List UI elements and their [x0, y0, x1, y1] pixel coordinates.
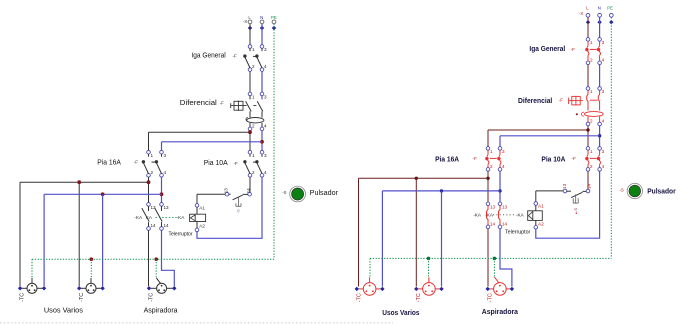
RCD blade pole 2	[257, 96, 263, 112]
RCD terminal 2 (sim)	[586, 119, 593, 127]
junction L socket 2 (sim)	[415, 177, 418, 180]
pushbutton -S terminal 14 (sim)	[586, 183, 592, 193]
svg-text:PE: PE	[607, 6, 613, 11]
indicator pushbutton Pulsador (sim)	[627, 183, 642, 198]
wire L drop socket 2	[78, 182, 80, 286]
indicator -S label (sim)	[620, 188, 624, 193]
svg-text:4: 4	[264, 124, 267, 129]
wire PE horizontal to sockets	[32, 258, 274, 260]
node N supply terminal (sim)	[597, 6, 601, 25]
svg-text:KA: KA	[146, 215, 153, 220]
svg-text:13: 13	[502, 204, 508, 209]
wire L KA to Aspiradora socket (sim)	[487, 229, 489, 287]
circuit breaker Pia 16A pole 2 (3-4)	[155, 150, 167, 178]
svg-text:1: 1	[590, 149, 593, 154]
junction L split to Pia 16A (sim)	[586, 128, 589, 131]
svg-text:-S: -S	[573, 208, 578, 212]
relay contact -KA pole 2 terminal 13	[159, 202, 169, 210]
pushbutton -S blade	[229, 194, 248, 200]
svg-text:-KA: -KA	[516, 213, 525, 218]
svg-text:3: 3	[502, 149, 505, 154]
label -F (Diferencial)	[220, 100, 224, 105]
wire N Iga to Diferencial (sim)	[599, 65, 601, 87]
label Telerruptor	[169, 231, 193, 237]
svg-text:Pia 10A: Pia 10A	[541, 155, 566, 164]
node L supply terminal -X	[243, 15, 252, 30]
wire N supply to Iga (sim)	[599, 17, 601, 37]
svg-text:-S: -S	[620, 188, 624, 193]
svg-text:-X: -X	[243, 19, 247, 24]
svg-text:3: 3	[264, 95, 267, 100]
relay contact -KA pole 2 terminal 14 (sim)	[498, 222, 508, 230]
socket -TC 2 (Usos Varios)	[77, 278, 105, 302]
svg-text:3: 3	[602, 40, 605, 45]
wire L drop socket 2 (sim)	[415, 178, 417, 286]
junction L to sockets (sim)	[486, 177, 489, 180]
RCD toroid	[246, 111, 264, 127]
mechanical link Pia 10A	[253, 161, 258, 163]
svg-text:3: 3	[602, 149, 605, 154]
RCD test box (sim)	[569, 96, 583, 106]
label -F (Iga General)	[232, 54, 236, 59]
relay contact -KA pole 1 terminal 14 (sim)	[486, 222, 496, 230]
relay contact -KA pole 2	[155, 206, 162, 226]
svg-text:1: 1	[252, 47, 255, 52]
svg-text:-KA: -KA	[134, 215, 143, 220]
svg-text:-F: -F	[559, 98, 563, 103]
svg-text:14: 14	[246, 188, 251, 194]
svg-text:4: 4	[602, 57, 605, 62]
wire L horizontal to Usos Varios (sim)	[359, 178, 489, 286]
RCD terminal 3 (sim)	[597, 86, 604, 94]
svg-text:3: 3	[264, 47, 267, 52]
RCD blade pole 1	[246, 96, 252, 112]
wire PE horizontal to sockets (sim)	[370, 257, 611, 259]
junction N to sockets (sim)	[498, 189, 501, 192]
breaker Pia 16A pole 2 closed (sim)	[497, 146, 505, 171]
svg-text:1: 1	[252, 153, 255, 158]
svg-text:1: 1	[151, 153, 154, 158]
svg-text:13: 13	[490, 204, 496, 209]
svg-text:14: 14	[164, 223, 170, 228]
wire N Diferencial to Pia 10A (sim)	[599, 126, 601, 147]
wire PE drop socket 2 (sim)	[428, 258, 430, 277]
mechanical link Pia16A (sim)	[490, 157, 497, 159]
page border dashed	[0, 322, 393, 324]
svg-text:1: 1	[590, 40, 593, 45]
node PE supply terminal	[271, 15, 277, 30]
label -F Iga (sim)	[571, 47, 575, 52]
RCD Diferencial terminal 1	[248, 92, 255, 100]
socket -TC 3 Aspiradora (sim)	[486, 277, 515, 302]
wire pushbutton 13 to coil A1 (sim)	[536, 191, 563, 202]
wire N drop socket 2	[102, 194, 104, 286]
svg-text:2: 2	[252, 64, 255, 69]
junction PE Aspiradora (sim)	[493, 257, 497, 261]
wire L Iga to Diferencial (sim)	[587, 65, 589, 87]
RCD pole 1 closed (sim)	[587, 90, 588, 110]
svg-text:Diferencial: Diferencial	[518, 96, 552, 105]
svg-text:2: 2	[151, 170, 154, 175]
wire N branch to Pia 16A	[162, 142, 263, 151]
svg-text:2: 2	[490, 164, 493, 169]
breaker Pia 10A pole 1 closed (sim)	[585, 146, 593, 171]
node PE supply terminal (sim)	[607, 6, 613, 25]
pushbutton -S terminal 14	[246, 188, 252, 197]
wire N horizontal to Usos Varios (sim)	[382, 191, 500, 287]
svg-text:13: 13	[164, 205, 170, 210]
label Aspiradora	[144, 308, 178, 315]
svg-text:Diferencial: Diferencial	[180, 100, 217, 107]
svg-text:4: 4	[164, 170, 167, 175]
node L supply terminal -X (sim)	[579, 6, 590, 25]
svg-text:N: N	[598, 6, 601, 11]
label -F (Pia 16A)	[134, 160, 138, 165]
svg-text:-F: -F	[572, 156, 576, 161]
junction N socket 2	[101, 192, 105, 196]
label Diferencial	[180, 100, 217, 107]
RCD Diferencial terminal 2	[248, 124, 255, 132]
svg-text:4: 4	[264, 170, 267, 175]
svg-text:1: 1	[490, 149, 493, 154]
svg-text:-S: -S	[282, 190, 286, 195]
telerruptor coil -KA terminal A2 (sim)	[534, 222, 545, 230]
wire N horizontal to Usos Varios	[44, 194, 161, 286]
label Usos Varios (sim)	[382, 308, 419, 317]
svg-text:Pia 10A: Pia 10A	[204, 160, 228, 167]
svg-text:-F: -F	[234, 161, 238, 166]
svg-text:-KA: -KA	[485, 213, 494, 218]
svg-text:A2: A2	[538, 222, 544, 227]
socket -TC 3 (Aspiradora)	[147, 278, 177, 302]
socket -TC 1 (Usos Varios)	[18, 278, 46, 302]
wire L horizontal to Usos Varios	[20, 182, 149, 286]
svg-text:Iga General: Iga General	[529, 44, 565, 53]
svg-text:A1: A1	[538, 204, 544, 209]
label -KA contact 1	[134, 215, 143, 220]
junction N split to Pia 16A (sim)	[598, 134, 601, 137]
svg-text:Usos Varios: Usos Varios	[382, 308, 419, 317]
svg-text:Telerruptor: Telerruptor	[169, 231, 193, 237]
svg-text:14: 14	[490, 222, 496, 227]
mechanical link Pia10A (sim)	[590, 157, 597, 159]
label Pia 10A (sim)	[541, 155, 566, 164]
circuit breaker Pia 16A pole 1 (1-2)	[142, 150, 154, 178]
wire L supply to Iga (sim)	[587, 17, 589, 37]
svg-text:N: N	[260, 15, 263, 20]
svg-text:13: 13	[224, 188, 229, 194]
wire N Pia10A return from coil A2 (sim)	[536, 171, 600, 238]
wire L from -X to Iga General	[249, 24, 251, 45]
wire PE drop socket 1 (sim)	[369, 258, 371, 277]
svg-text:PE: PE	[271, 15, 277, 20]
relay contact -KA pole 2 terminal 13 (sim)	[498, 202, 508, 210]
pushbutton -S blade (sim)	[566, 191, 586, 197]
junction L split to Pia 16A	[248, 130, 252, 134]
svg-text:-TC: -TC	[487, 293, 493, 302]
circuit breaker Pia 10A pole 1 (1-2)	[243, 150, 255, 178]
label -F Diferencial (sim)	[559, 98, 563, 103]
svg-text:Pia 16A: Pia 16A	[435, 155, 460, 164]
telerruptor coil -KA terminal A1 (sim)	[534, 201, 545, 208]
svg-text:-F: -F	[571, 47, 575, 52]
svg-text:-TC: -TC	[149, 293, 155, 302]
socket -TC 2 Usos Varios (sim)	[414, 277, 444, 302]
wire pushbutton 13 to coil A1	[197, 194, 225, 203]
wire N drop socket 2 (sim)	[441, 191, 443, 287]
svg-text:2: 2	[252, 124, 255, 129]
svg-text:-F: -F	[134, 160, 138, 165]
wire PE vertical	[273, 24, 275, 259]
junction PE socket 2 (sim)	[427, 257, 431, 261]
svg-text:-KA: -KA	[177, 215, 186, 220]
wire L Pia10A to pushbutton 14	[249, 177, 251, 192]
wire PE drop socket 2	[90, 259, 92, 278]
RCD terminal 4 (sim)	[597, 119, 604, 127]
label Pulsador (sim)	[647, 186, 676, 195]
label -KA contact 2 (sim)	[485, 213, 494, 218]
svg-text:-F: -F	[473, 156, 477, 161]
relay contact -KA pole 1 closed (sim)	[487, 206, 489, 225]
mechanical link Iga (sim)	[590, 48, 597, 50]
relay contact -KA pole 1 terminal 14	[146, 223, 156, 231]
label -F (Pia 10A)	[234, 161, 238, 166]
circuit breaker Iga General pole 1 (1-2)	[243, 44, 255, 72]
svg-text:Pulsador: Pulsador	[310, 190, 339, 197]
telerruptor coil -KA terminal A2	[195, 224, 206, 233]
svg-text:3: 3	[164, 153, 167, 158]
junction PE socket 2	[90, 257, 94, 261]
label Diferencial (sim)	[518, 96, 552, 105]
RCD terminal 1 (sim)	[586, 86, 593, 94]
circuit breaker Pia 10A pole 2 (3-4)	[255, 150, 267, 178]
mechanical link KA to coil (sim)	[493, 214, 516, 216]
wire L Diferencial to Pia 10A (sim)	[587, 126, 589, 147]
relay contact -KA pole 2 terminal 14	[159, 223, 169, 231]
svg-text:-S: -S	[236, 209, 241, 213]
wire N from -X to Diferencial path	[261, 24, 263, 45]
RCD test box	[231, 101, 247, 111]
svg-text:A2: A2	[199, 224, 205, 229]
pushbutton -S actuator (sim)	[573, 194, 578, 214]
wire L Diferencial to Pia 10A	[249, 131, 251, 151]
RCD link dash (sim)	[590, 99, 598, 101]
mechanical link KA contacts to coil	[156, 216, 177, 218]
relay contact -KA pole 1	[142, 206, 149, 226]
svg-text:-TC: -TC	[20, 293, 26, 302]
label Pulsador	[310, 190, 339, 197]
label Iga General (sim)	[529, 44, 565, 53]
breaker Pia 10A pole 2 closed (sim)	[597, 146, 605, 171]
wire L Pia16A down to KA (sim)	[487, 171, 489, 202]
wire N Pia16A down to KA (sim)	[499, 171, 501, 202]
socket -TC 1 Usos Varios (sim)	[355, 277, 385, 302]
telerruptor coil -KA (sim)	[528, 205, 543, 225]
RCD link dash	[253, 105, 256, 107]
mechanical link Iga General	[253, 55, 258, 57]
wire PE vertical (sim)	[610, 17, 612, 258]
svg-text:Pia 16A: Pia 16A	[97, 159, 121, 166]
label Pia 10A	[204, 160, 228, 167]
wire L Iga to Diferencial	[249, 72, 251, 93]
RCD pole 2 closed (sim)	[598, 90, 599, 110]
svg-text:Pulsador: Pulsador	[647, 186, 676, 195]
svg-text:-TC: -TC	[79, 293, 85, 302]
label -F Pia16A (sim)	[473, 156, 477, 161]
wire L branch to Pia 16A	[149, 132, 251, 150]
wire PE drop Aspiradora (sim)	[493, 258, 495, 277]
wire N Pia16A down to KA contact	[161, 177, 163, 202]
wire N Diferencial to Pia 10A	[261, 131, 263, 151]
RCD Diferencial terminal 4	[260, 124, 267, 132]
svg-text:Aspiradora: Aspiradora	[144, 308, 178, 315]
junction L socket 2	[77, 180, 81, 184]
svg-text:1: 1	[252, 95, 255, 100]
breaker Iga General pole 1 closed (sim)	[585, 37, 593, 65]
svg-text:2: 2	[590, 119, 593, 124]
junction N split to Pia 16A	[260, 140, 264, 144]
svg-text:Telerruptor: Telerruptor	[505, 230, 531, 236]
junction L to sockets	[147, 180, 151, 184]
label -KA coil (sim)	[516, 213, 525, 218]
svg-text:2: 2	[590, 164, 593, 169]
svg-text:4: 4	[602, 164, 605, 169]
svg-text:Iga General: Iga General	[191, 52, 226, 59]
svg-text:3: 3	[264, 153, 267, 158]
pushbutton -S terminal 13	[224, 188, 230, 197]
label Aspiradora (sim)	[482, 307, 519, 316]
label -KA contact 1 (sim)	[473, 213, 482, 218]
pushbutton -S terminal 13 (sim)	[562, 183, 567, 193]
svg-text:-TC: -TC	[416, 293, 422, 302]
mechanical link Pia 16A	[152, 161, 157, 163]
svg-text:Usos Varios: Usos Varios	[44, 308, 84, 315]
svg-text:13: 13	[562, 183, 567, 189]
label Pia 16A (sim)	[435, 155, 460, 164]
wire L branch to Pia 16A (sim)	[488, 130, 588, 147]
relay contact -KA pole 2 closed (sim)	[499, 206, 501, 225]
svg-text:1: 1	[590, 89, 593, 94]
wire L Pia16A down to KA contact	[148, 177, 150, 202]
svg-text:14: 14	[502, 222, 508, 227]
svg-text:-X: -X	[579, 11, 583, 16]
pushbutton -S actuator	[236, 197, 241, 213]
RCD toroid (sim)	[576, 112, 603, 123]
svg-text:-F: -F	[232, 54, 236, 59]
indicator pushbutton Pulsador	[290, 186, 306, 202]
telerruptor coil -KA	[190, 207, 206, 228]
circuit breaker Iga General pole 2 (3-4)	[255, 44, 267, 72]
label Telerruptor (sim)	[505, 230, 531, 236]
wire N Pia10A return from coil A2	[197, 177, 262, 238]
label KA contact 2	[146, 215, 153, 220]
wire N branch to Pia 16A (sim)	[500, 136, 600, 147]
wire L Pia10A to pushbutton 14 (sim)	[587, 171, 589, 189]
svg-text:4: 4	[602, 119, 605, 124]
wire PE drop Aspiradora	[155, 259, 157, 277]
svg-text:Aspiradora: Aspiradora	[482, 307, 519, 316]
telerruptor coil -KA terminal A1	[195, 203, 206, 210]
wire PE drop socket 1	[31, 259, 33, 278]
label -F Pia10A (sim)	[572, 156, 576, 161]
junction N to sockets	[160, 192, 164, 196]
wire N KA to Aspiradora socket (sim)	[500, 229, 512, 287]
breaker Iga General pole 2 closed (sim)	[597, 37, 605, 65]
label Usos Varios	[44, 308, 84, 315]
svg-text:-KA: -KA	[473, 213, 482, 218]
svg-text:14: 14	[151, 223, 157, 228]
svg-text:2: 2	[252, 170, 255, 175]
label -KA coil	[177, 215, 186, 220]
breaker Pia 16A pole 1 closed (sim)	[485, 146, 493, 171]
wire L KA to Aspiradora socket	[148, 230, 150, 286]
relay contact -KA pole 1 terminal 13	[146, 202, 156, 210]
label Iga General	[191, 52, 226, 59]
svg-text:4: 4	[264, 64, 267, 69]
svg-text:4: 4	[502, 164, 505, 169]
node N supply terminal	[260, 15, 264, 30]
RCD Diferencial terminal 3	[260, 92, 267, 100]
svg-text:2: 2	[590, 57, 593, 62]
label Pia 16A	[97, 159, 121, 166]
wire N KA to Aspiradora socket	[162, 230, 175, 286]
junction PE Aspiradora	[154, 257, 158, 261]
svg-text:14: 14	[586, 183, 591, 189]
junction N socket 2 (sim)	[440, 189, 443, 192]
svg-text:A1: A1	[199, 206, 205, 211]
indicator pushbutton -S label	[282, 190, 286, 195]
svg-text:-TC: -TC	[356, 293, 362, 302]
svg-text:3: 3	[602, 89, 605, 94]
relay contact -KA pole 1 terminal 13 (sim)	[486, 202, 496, 210]
svg-text:-F: -F	[220, 100, 224, 105]
wire N Iga to Diferencial	[261, 72, 263, 93]
